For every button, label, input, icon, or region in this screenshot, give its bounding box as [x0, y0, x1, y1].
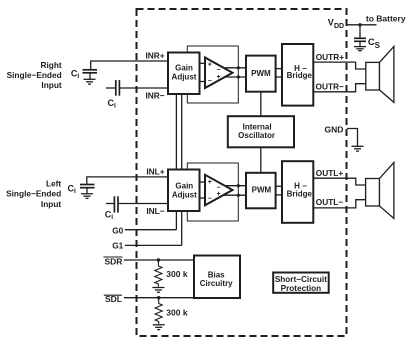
label CS — [368, 37, 381, 50]
ground (GND pin) — [352, 146, 364, 151]
gain adjust block (right) — [168, 53, 200, 95]
svg-text:OUTL−: OUTL− — [316, 197, 344, 207]
node Left Single-Ended Input — [6, 178, 61, 209]
svg-text:to Battery: to Battery — [366, 14, 406, 24]
node SDR — [103, 256, 122, 266]
svg-text:INR−: INR− — [145, 90, 164, 100]
wire PWM to H-Bridge bottom (right) — [276, 76, 283, 78]
wire input stub to series cap CI (right) — [106, 87, 116, 89]
wire PWM to H-Bridge top (right) — [276, 68, 283, 70]
wire SDR to bias circuitry — [124, 259, 194, 261]
svg-text:+: + — [208, 179, 212, 186]
svg-text:−: − — [208, 78, 212, 85]
wire OUTL- to speaker — [313, 200, 365, 208]
wire input stub to series cap CI (left) — [106, 203, 115, 205]
svg-text:I: I — [74, 188, 76, 195]
junction SDL/pulldown — [157, 296, 160, 299]
svg-text:Input: Input — [41, 199, 62, 209]
svg-text:Right: Right — [40, 60, 61, 70]
wire SDL to bias circuitry — [124, 297, 194, 299]
feedback box around right op-amp — [187, 46, 238, 103]
capacitor CS — [354, 38, 366, 46]
wire PWM right to internal oscillator — [260, 92, 262, 117]
svg-text:Single−Ended: Single−Ended — [7, 70, 62, 80]
wire G0 — [125, 229, 177, 231]
wire PWM to H-Bridge top (left) — [276, 185, 283, 187]
svg-text:INL+: INL+ — [146, 166, 164, 176]
feedback box around left op-amp — [187, 163, 238, 221]
junction dot right op-amp output top — [237, 66, 240, 69]
wire INR+ from shunt cap to Gain Adjust — [91, 61, 168, 69]
wire gain adjust to op-amp + input (left) — [200, 181, 207, 183]
svg-text:Gain: Gain — [175, 63, 193, 72]
op-amp U2 (left channel) — [205, 175, 233, 206]
wire G0 vertical run to gain adjust blocks — [175, 94, 177, 230]
svg-text:Bridge: Bridge — [287, 71, 313, 80]
label CI (right shunt) — [71, 69, 80, 81]
op-amp U1 (right channel) — [205, 58, 233, 89]
ground (CS) — [354, 47, 366, 51]
svg-text:G1: G1 — [112, 240, 123, 250]
junction dot right op-amp output bottom — [237, 75, 240, 78]
wire G1 vertical run to gain adjust blocks — [181, 94, 183, 245]
wire op-amp output bottom to PWM (right) — [221, 76, 246, 78]
svg-text:−: − — [208, 195, 212, 202]
PWM block (right) — [246, 56, 276, 92]
svg-text:Oscillator: Oscillator — [238, 131, 275, 140]
svg-text:OUTR−: OUTR− — [316, 82, 345, 92]
ground (right shunt cap) — [84, 79, 96, 84]
wire internal oscillator to PWM left — [260, 147, 262, 173]
svg-text:INR+: INR+ — [145, 51, 164, 61]
svg-text:+: + — [217, 191, 221, 198]
svg-text:G0: G0 — [112, 225, 123, 235]
H-Bridge block (left) — [282, 161, 313, 223]
label CI (left shunt) — [68, 183, 77, 195]
junction dot left op-amp output top — [237, 184, 240, 187]
label CI (left series) — [105, 210, 114, 222]
label CI (right series) — [108, 98, 117, 110]
svg-text:Bridge: Bridge — [287, 190, 313, 199]
capacitor CI (right channel series input) — [116, 80, 120, 96]
node Right Single-Ended Input — [7, 60, 62, 90]
wire gain adjust to op-amp - input (right) — [200, 81, 207, 83]
svg-text:+: + — [208, 62, 212, 69]
short-circuit protection block — [273, 273, 329, 294]
node SDL — [104, 294, 122, 304]
wire op-amp output top to PWM (right) — [221, 67, 246, 69]
svg-text:Protection: Protection — [281, 284, 322, 293]
svg-text:I: I — [111, 214, 113, 221]
svg-text:Single−Ended: Single−Ended — [6, 189, 61, 199]
wire INR- to Gain Adjust — [119, 87, 168, 89]
junction VDD/CS — [358, 23, 361, 26]
resistor 300k (SDL pulldown) — [155, 298, 162, 324]
svg-text:Input: Input — [41, 80, 62, 90]
svg-text:PWM: PWM — [252, 186, 272, 195]
speaker (left channel) — [366, 163, 394, 219]
svg-text:V: V — [328, 18, 334, 28]
wire INL+ from shunt cap to Gain Adjust — [87, 177, 168, 184]
svg-text:PWM: PWM — [251, 69, 271, 78]
wire OUTR+ to speaker — [313, 62, 366, 69]
wire INL- to Gain Adjust — [118, 203, 168, 205]
ground (left shunt cap) — [81, 194, 93, 199]
svg-text:S: S — [375, 41, 381, 50]
internal oscillator block — [228, 116, 294, 147]
svg-text:SDR: SDR — [104, 256, 122, 266]
svg-text:Left: Left — [46, 178, 61, 188]
svg-text:I: I — [114, 102, 116, 109]
svg-text:300 k: 300 k — [166, 308, 188, 318]
PWM block (left) — [246, 173, 276, 209]
svg-text:INL−: INL− — [146, 206, 164, 216]
wire G1 — [125, 244, 182, 246]
bias circuitry block — [194, 256, 240, 299]
svg-text:I: I — [77, 73, 79, 80]
svg-text:GND: GND — [325, 124, 344, 134]
speaker (right channel) — [366, 46, 394, 102]
wire op-amp output top to PWM (left) — [221, 185, 246, 187]
capacitor CI (left channel shunt) — [80, 185, 95, 194]
dashed device boundary — [137, 9, 347, 336]
svg-text:SDL: SDL — [105, 294, 122, 304]
wire OUTR- to speaker — [313, 84, 366, 92]
wire gain adjust to op-amp - input (left) — [200, 197, 207, 199]
capacitor CI (left channel series input) — [114, 196, 118, 212]
H-Bridge block (right) — [282, 44, 313, 106]
svg-text:Adjust: Adjust — [172, 190, 197, 199]
wire OUTL+ to speaker — [313, 178, 365, 185]
svg-text:Adjust: Adjust — [172, 72, 197, 81]
wire VDD to battery — [347, 24, 377, 26]
capacitor CI (right channel shunt) — [83, 70, 98, 79]
svg-text:OUTL+: OUTL+ — [316, 168, 344, 178]
node VDD — [328, 18, 344, 31]
junction SDR/pulldown — [157, 258, 160, 261]
ground (SDR resistor) — [152, 288, 164, 293]
svg-text:300 k: 300 k — [166, 269, 188, 279]
junction dot left op-amp output bottom — [237, 194, 240, 197]
svg-text:Circuitry: Circuitry — [200, 279, 233, 288]
wire op-amp output bottom to PWM (left) — [221, 194, 246, 196]
svg-text:DD: DD — [334, 23, 344, 30]
wire gain adjust to op-amp + input (right) — [200, 62, 207, 64]
wire PWM to H-Bridge bottom (left) — [276, 194, 283, 196]
ground (SDL resistor) — [153, 325, 165, 330]
svg-text:+: + — [217, 74, 221, 81]
svg-text:Gain: Gain — [175, 181, 193, 190]
svg-text:OUTR+: OUTR+ — [316, 52, 345, 62]
wire GND pin to ground — [347, 129, 358, 147]
wire VDD dot to CS — [359, 25, 361, 38]
svg-text:Short−Circuit: Short−Circuit — [275, 275, 327, 284]
resistor 300k (SDR pulldown) — [155, 260, 162, 287]
gain adjust block (left) — [168, 170, 200, 212]
